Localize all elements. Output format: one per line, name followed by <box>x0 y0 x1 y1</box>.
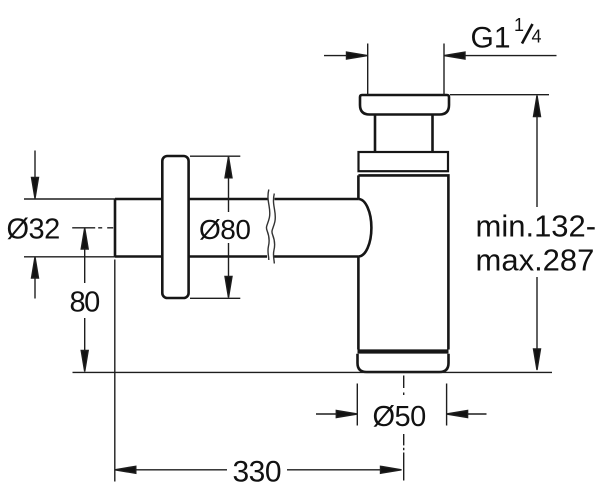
svg-text:1: 1 <box>514 15 524 35</box>
dimension Ø80 line and arrows <box>225 157 232 298</box>
label min.132-max.287 <box>476 209 597 278</box>
pipe centerline <box>72 227 115 229</box>
dimension Ø50 arrows <box>316 411 487 418</box>
svg-text:Ø80: Ø80 <box>199 214 250 245</box>
pipe break squiggle <box>266 190 275 264</box>
body centerline <box>403 376 405 481</box>
dimension 330 extension line <box>114 260 116 482</box>
pipe-body junction bulge <box>358 199 371 257</box>
svg-text:330: 330 <box>233 455 282 488</box>
svg-text:80: 80 <box>70 287 100 319</box>
trap body <box>358 175 448 349</box>
dimension min-max line and arrows <box>534 96 541 371</box>
dimension 80 line and arrows <box>81 228 88 372</box>
svg-text:4: 4 <box>532 27 542 47</box>
svg-text:Ø50: Ø50 <box>373 401 426 433</box>
dimension Ø80 extension lines <box>190 156 240 298</box>
compression nut <box>359 152 449 171</box>
body bottom seam (thick) <box>358 349 449 353</box>
inlet neck <box>375 115 433 153</box>
label G1 1/4 <box>471 15 542 55</box>
dimension G1 1/4 extension lines <box>368 44 444 96</box>
dimension Ø50 extension lines <box>357 384 446 426</box>
wall flange (rosette) <box>162 156 188 298</box>
bottom cap <box>358 354 449 372</box>
dimension Ø32 arrows <box>32 151 39 299</box>
svg-text:min.132-: min.132- <box>476 209 597 244</box>
dimension 330 line and arrows <box>115 466 402 473</box>
bottom reference line <box>73 371 553 373</box>
dimension min-max extension line <box>450 94 549 96</box>
dimension G1 1/4 arrows <box>324 52 557 59</box>
horizontal inlet pipe <box>115 199 358 257</box>
svg-text:max.287: max.287 <box>476 243 595 278</box>
dimension Ø32 extension lines <box>24 199 115 257</box>
svg-text:Ø32: Ø32 <box>7 214 60 246</box>
top inlet flange <box>360 95 449 115</box>
svg-text:G1: G1 <box>471 22 511 55</box>
